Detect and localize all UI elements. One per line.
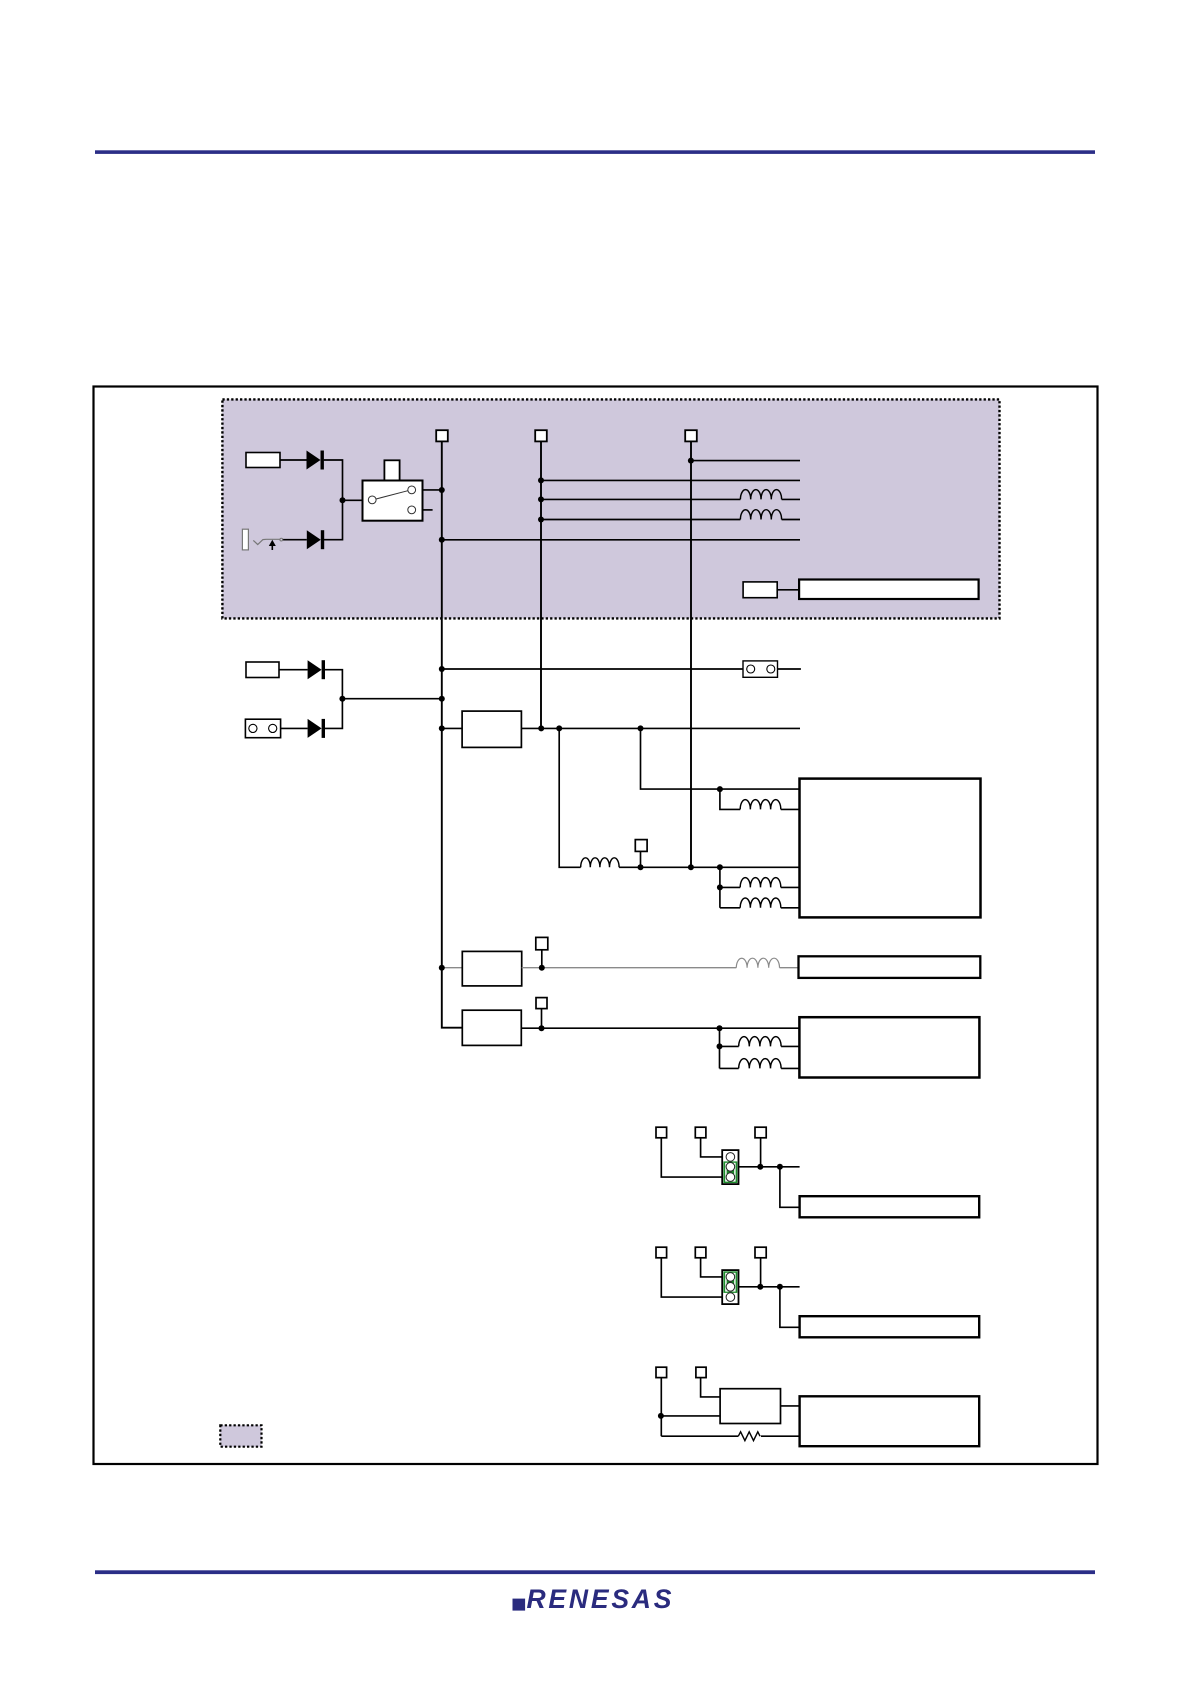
svg-text:RENESAS: RENESAS xyxy=(527,1584,675,1614)
